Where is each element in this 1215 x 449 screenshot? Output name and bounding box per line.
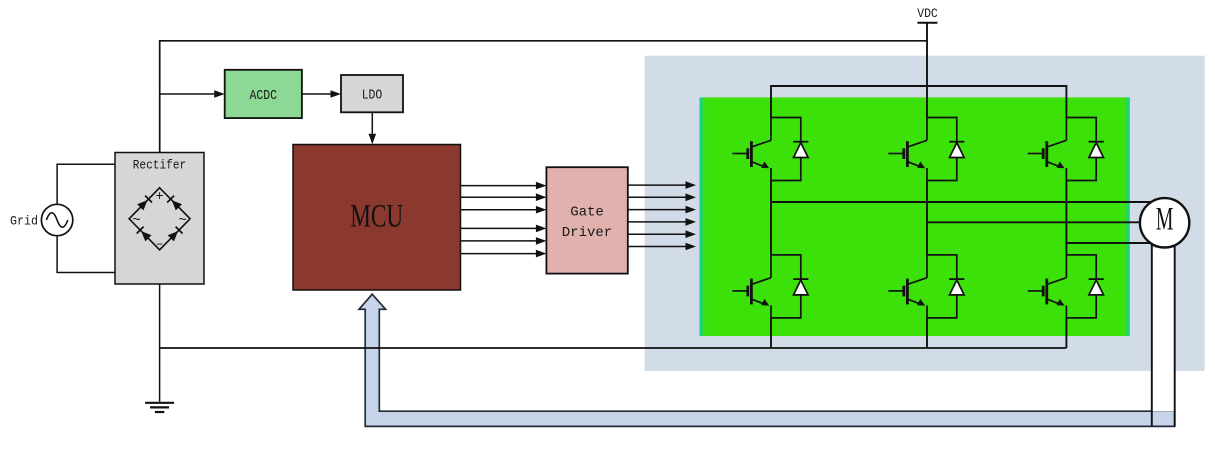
svg-text:Grid: Grid xyxy=(10,214,38,229)
svg-text:Driver: Driver xyxy=(562,225,612,241)
diode D3 (freewheeling) xyxy=(949,142,964,158)
svg-text:Rectifer: Rectifer xyxy=(133,158,187,173)
transistor Q4 (IGBT) xyxy=(888,255,927,318)
svg-text:+: + xyxy=(156,190,164,205)
wire: VDC down to inverter leg 2 xyxy=(926,23,928,118)
wire + arrow: LDO to MCU xyxy=(371,112,373,134)
wire: leg 2 to bottom bus xyxy=(926,318,928,348)
motor sensing pipe (white channel) xyxy=(1153,248,1174,412)
transistor Q3 (IGBT) xyxy=(888,118,927,181)
wire + arrow: MCU PWM signal 4 to gate driver xyxy=(461,227,537,229)
wire + arrow: gate drive signal 1 to inverter xyxy=(628,184,686,186)
wire + arrow: gate drive signal 3 to inverter xyxy=(628,209,686,211)
wire: top bus drop leg 3 xyxy=(1065,85,1067,118)
bridge diode lower-left xyxy=(141,231,151,241)
feedback arrow (motor position signal back to MCU), blue pipe xyxy=(359,294,1175,426)
diode D6 (freewheeling) xyxy=(1089,279,1104,295)
wire + arrow: ACDC to LDO xyxy=(302,93,331,95)
motor M xyxy=(1140,198,1189,247)
transistor Q1 (IGBT) xyxy=(732,118,771,181)
svg-text:LDO: LDO xyxy=(362,88,383,103)
wire: bottom DC- bus from rectifier to inverter xyxy=(160,347,1067,349)
diode D1 (freewheeling) xyxy=(793,142,808,158)
LDO block xyxy=(341,75,403,112)
wire: phase A output to motor xyxy=(771,201,1160,203)
wire + arrow: gate drive signal 6 to inverter xyxy=(628,246,686,248)
wire: collector/diode branch of IGBT cell Q4 xyxy=(927,255,957,318)
wire: grid bottom to rectifier input xyxy=(57,235,115,272)
inverter power-stage green block xyxy=(700,97,1130,336)
transistor Q2 (IGBT) xyxy=(732,255,771,318)
wire: collector/diode branch of IGBT cell Q2 xyxy=(771,255,801,318)
inverter module background panel xyxy=(645,56,1205,371)
svg-text:Gate: Gate xyxy=(570,205,604,221)
transistor Q6 (IGBT) xyxy=(1028,255,1067,318)
wire + arrow: MCU PWM signal 6 to gate driver xyxy=(461,253,537,255)
wire: phase B output to motor xyxy=(927,221,1160,223)
diode D2 (freewheeling) xyxy=(793,279,808,295)
wire: rectifier bottom to ground / dc- rail xyxy=(159,284,161,402)
svg-text:~: ~ xyxy=(132,213,140,229)
wire + arrow: gate drive signal 2 to inverter xyxy=(628,196,686,198)
VDC supply symbol xyxy=(917,22,937,24)
wire: collector/diode branch of IGBT cell Q3 xyxy=(927,118,957,181)
bridge diode upper-left xyxy=(137,200,147,210)
wire: collector/diode branch of IGBT cell Q5 xyxy=(1066,118,1096,181)
svg-text:~: ~ xyxy=(178,213,186,229)
svg-text:ACDC: ACDC xyxy=(250,89,278,104)
transistor Q5 (IGBT) xyxy=(1028,118,1067,181)
wire: inverter top DC bus xyxy=(771,85,1066,87)
wire: leg 3 midpoint link xyxy=(1065,181,1067,255)
wire: leg 1 midpoint link xyxy=(770,181,772,255)
svg-text:MCU: MCU xyxy=(350,199,403,235)
wire + arrow: MCU PWM signal 1 to gate driver xyxy=(461,185,537,187)
wire + arrow: gate drive signal 4 to inverter xyxy=(628,221,686,223)
MCU block xyxy=(293,145,461,291)
wire + arrow: tap to ACDC xyxy=(160,93,214,95)
diode D5 (freewheeling) xyxy=(1089,142,1104,158)
wire: phase C output to motor xyxy=(1066,242,1160,244)
AC source (Grid) circle with sine xyxy=(41,204,72,235)
rectifier block xyxy=(115,153,204,285)
wire: grid top to rectifier input xyxy=(57,164,115,204)
diode D4 (freewheeling) xyxy=(949,279,964,295)
wire + arrow: MCU PWM signal 5 to gate driver xyxy=(461,240,537,242)
bridge diode lower-right xyxy=(168,231,178,241)
wire: top bus drop leg 1 xyxy=(770,85,772,118)
gate driver block xyxy=(546,167,627,273)
bridge diode upper-right xyxy=(172,200,182,210)
wire: collector/diode branch of IGBT cell Q6 xyxy=(1066,255,1096,318)
wire + arrow: MCU PWM signal 2 to gate driver xyxy=(461,196,537,198)
wire + arrow: gate drive signal 5 to inverter xyxy=(628,233,686,235)
svg-text:–: – xyxy=(156,236,164,251)
diode bridge diamond xyxy=(129,188,190,250)
wire + arrow: MCU PWM signal 3 to gate driver xyxy=(461,209,537,211)
wire: leg 3 to bottom bus xyxy=(1065,318,1067,348)
wire: top rail from rectifier to VDC node xyxy=(160,41,927,153)
wire: leg 1 to bottom bus xyxy=(770,318,772,348)
svg-text:M: M xyxy=(1156,202,1174,238)
wire: collector/diode branch of IGBT cell Q1 xyxy=(771,118,801,181)
wire: leg 2 midpoint link xyxy=(926,181,928,255)
ground symbol xyxy=(145,403,174,412)
svg-text:VDC: VDC xyxy=(917,6,938,21)
ACDC converter block xyxy=(225,70,302,118)
